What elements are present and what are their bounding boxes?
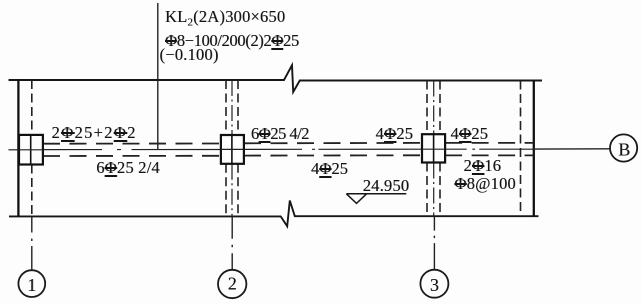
grid 3 hidden beam edge left, upper	[426, 81, 428, 135]
right wall hidden edge dashed	[520, 81, 522, 217]
grid B centerline stub left of wall	[9, 149, 20, 151]
grid 2 hidden beam edge left, upper	[225, 80, 227, 135]
grid 1 centerline below slab	[31, 217, 33, 270]
leader line from KL2 annotation to beam	[157, 3, 159, 150]
bottom bars bay 1	[96, 158, 160, 178]
slab bottom edge with break	[9, 201, 539, 227]
grid 2 centerline lower	[231, 164, 233, 217]
grid 3 centerline below slab	[433, 217, 435, 270]
beam KL2 upper hidden edge, bay 1	[43, 143, 221, 145]
grid bubble B	[610, 134, 637, 161]
column C3 at grid 3	[422, 134, 445, 162]
beam elevation note	[160, 45, 219, 65]
grid B centerline cantilever	[445, 148, 534, 150]
bottom bars bay 2	[311, 159, 348, 179]
beam collective annotation KL2	[165, 8, 299, 51]
grid B centerline bay 1	[43, 149, 221, 151]
top bars cantilever	[451, 124, 489, 144]
grid 3 hidden beam edge right, lower	[439, 163, 441, 217]
grid 2 hidden beam edge right, upper	[237, 80, 239, 135]
grid bubble 2	[218, 270, 246, 298]
left wall hidden edge (dashed) lower	[31, 165, 33, 217]
beam KL2 lower hidden edge, bay 1	[43, 155, 221, 157]
top bars at support 1	[52, 123, 137, 143]
grid 2 hidden beam edge left, lower	[225, 164, 227, 217]
svg-text:2: 2	[228, 274, 237, 294]
svg-text:B: B	[618, 139, 630, 159]
grid B centerline bay 2	[244, 148, 422, 150]
grid bubble 3	[420, 270, 448, 298]
slab top edge with break	[9, 65, 543, 92]
column C1 at grid 1	[19, 135, 43, 165]
grid 3 hidden beam edge right, upper	[439, 81, 441, 135]
beam KL2 upper hidden edge, cantilever	[445, 142, 534, 144]
level value	[363, 176, 410, 196]
left wall hidden edge (dashed) upper	[31, 80, 33, 135]
grid B line to bubble	[534, 148, 610, 150]
grid 3 hidden beam edge left, lower	[426, 163, 428, 217]
grid 2 hidden beam edge right, lower	[237, 164, 239, 217]
right wall solid edge	[533, 80, 535, 216]
top bars at support 3 left	[376, 124, 414, 144]
column C2 at grid 2	[221, 135, 244, 164]
beam KL2 lower hidden edge, cantilever	[445, 154, 534, 156]
grid 2 centerline below slab	[231, 217, 233, 270]
grid bubble 1	[18, 270, 45, 297]
bottom bars cantilever	[464, 156, 502, 176]
svg-text:3: 3	[430, 275, 439, 295]
grid 2 centerline upper	[231, 80, 233, 135]
level symbol 24.950	[346, 193, 406, 195]
beam KL2 upper hidden edge, bay 2	[244, 142, 422, 144]
svg-text:1: 1	[27, 275, 36, 295]
grid 3 centerline upper	[433, 81, 435, 135]
cantilever stirrups	[454, 174, 515, 194]
left wall solid edge	[17, 79, 19, 216]
grid 3 centerline lower	[433, 163, 435, 217]
top bars at support 2	[251, 124, 309, 144]
beam KL2 lower hidden edge, bay 2	[244, 154, 422, 156]
